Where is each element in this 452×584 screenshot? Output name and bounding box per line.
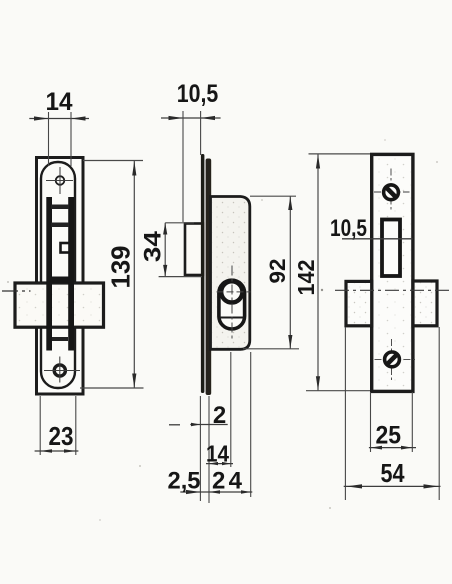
svg-text:10,5: 10,5 xyxy=(177,80,219,108)
scan specks xyxy=(321,289,323,291)
dimension 2 (plate thickness) xyxy=(169,424,180,426)
keyhole horizontal centerline xyxy=(217,291,251,293)
channel rung above bolt xyxy=(51,277,69,284)
bottom screw hole xyxy=(54,365,65,376)
dimension 25 xyxy=(369,447,416,449)
faceplate edge-on front line xyxy=(201,154,205,393)
svg-text:142: 142 xyxy=(293,260,319,296)
svg-text:14: 14 xyxy=(206,441,229,467)
channel notch xyxy=(61,243,70,253)
channel left bar xyxy=(46,197,52,351)
lock case body (back view) xyxy=(372,154,413,391)
faceplate outer rectangle xyxy=(37,158,84,395)
extension line (left) down to bolt xyxy=(182,111,184,222)
extension line right of dim 14 xyxy=(70,112,72,166)
follower slot xyxy=(382,220,400,277)
bottom screw centerlines xyxy=(391,339,393,381)
extension lines below right view xyxy=(344,328,346,501)
dimension 34 xyxy=(165,222,194,224)
channel rung 2 xyxy=(51,223,69,228)
svg-text:25: 25 xyxy=(376,422,402,450)
svg-text:2,5: 2,5 xyxy=(168,468,201,495)
dimension 23 (bottom left) xyxy=(39,396,41,455)
bolt (front view) xyxy=(15,283,104,327)
channel rung below bolt xyxy=(52,337,68,341)
bottom screw hole centerlines xyxy=(59,357,61,383)
svg-text:23: 23 xyxy=(49,421,74,451)
keyhole circle xyxy=(221,281,242,302)
bolt stub right xyxy=(413,281,437,326)
svg-text:34: 34 xyxy=(140,230,167,262)
top screw hole xyxy=(56,176,65,185)
dimension 54 xyxy=(344,485,441,487)
leader line for 10,5 xyxy=(342,238,413,240)
extension line (right) down to plate xyxy=(200,111,202,155)
case stipple xyxy=(212,198,248,350)
lock case body (side) xyxy=(211,197,250,350)
dimension 92 xyxy=(250,195,296,197)
horizontal centerline through bolt xyxy=(335,289,451,291)
svg-text:54: 54 xyxy=(381,458,405,488)
bottom dimension line (2,5 / 24) xyxy=(180,491,252,493)
extension line left of dim 14 xyxy=(48,112,50,166)
top screw head xyxy=(384,185,399,200)
keyhole cylinder oval xyxy=(219,280,245,329)
bolt (side view) xyxy=(185,224,203,276)
keyhole chord line xyxy=(220,317,245,319)
channel right bar xyxy=(68,197,74,351)
bottom screw head xyxy=(385,352,400,367)
svg-text:139: 139 xyxy=(105,246,135,289)
extension lines below middle view xyxy=(199,396,201,501)
dimension 14 (backset, bottom middle) xyxy=(206,463,233,465)
svg-text:92: 92 xyxy=(265,259,290,284)
top screw hole centerlines xyxy=(59,167,61,194)
keyhole vertical centerline xyxy=(231,266,233,340)
top screw centerlines xyxy=(390,169,392,211)
bolt stub left xyxy=(346,281,372,325)
faceplate inner stadium outline xyxy=(41,162,75,388)
dimension 142 xyxy=(309,153,371,155)
svg-text:10,5: 10,5 xyxy=(330,215,367,242)
horizontal centerline stub left of bolt xyxy=(2,290,31,292)
svg-text:14: 14 xyxy=(46,88,73,116)
case stipple xyxy=(374,157,411,389)
dimension 139 (right of left view) xyxy=(83,160,143,162)
bolt stipple xyxy=(17,286,101,326)
faceplate edge-on dark strip xyxy=(206,159,212,396)
svg-text:2: 2 xyxy=(213,402,226,429)
channel rung 1 xyxy=(51,205,69,210)
